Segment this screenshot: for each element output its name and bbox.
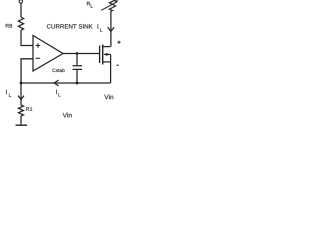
label IL left - L subscript <box>9 94 11 97</box>
MOSFET Q1 source stub <box>103 61 111 63</box>
MOSFET Q1 body arrowhead <box>104 53 108 56</box>
label Vin lower <box>63 113 72 118</box>
label IL left - I <box>5 90 8 94</box>
op-amp U1 <box>33 36 63 72</box>
wire RB to op-amp + input <box>21 30 33 45</box>
drain wire up to RL <box>110 11 112 47</box>
MOSFET Q1 channel bar <box>102 45 104 65</box>
label IL drain - I <box>97 24 100 28</box>
input terminal circle <box>19 0 23 3</box>
resistor RB <box>18 17 23 30</box>
label RB <box>6 24 13 28</box>
MOSFET Q1 body arrow <box>104 53 110 55</box>
wire node down to R1 <box>20 83 22 105</box>
label R1 <box>26 107 32 111</box>
MOSFET Q1 gate bar <box>99 46 101 64</box>
wire terminal to RB <box>20 3 22 17</box>
wire minus input to left rail down <box>21 59 33 83</box>
RL wiper arrow <box>101 2 116 10</box>
label Vin right <box>104 94 113 99</box>
label IL rail - L subscript <box>58 93 60 96</box>
op-amp output wire to MOSFET gate <box>63 53 99 55</box>
wire R1 to bottom terminal <box>20 116 22 125</box>
title CURRENT SINK <box>47 24 93 28</box>
op-amp minus input symbol <box>36 57 40 59</box>
bottom terminal bar <box>16 124 28 126</box>
minus mark VDS <box>116 64 119 66</box>
label RL - L subscript <box>91 4 93 7</box>
feedback rail wire <box>21 82 111 84</box>
label Cstab <box>52 69 64 72</box>
label IL drain - L subscript <box>100 28 102 31</box>
label IL rail - I <box>55 90 58 94</box>
op-amp plus input symbol <box>36 43 41 48</box>
resistor RL variable <box>109 0 115 11</box>
resistor R1 <box>19 105 24 116</box>
capacitor Cstab bottom stub <box>76 69 78 83</box>
MOSFET Q1 source-body vertical <box>110 54 112 62</box>
plus mark VDS <box>117 41 120 44</box>
node junction output-capacitor <box>76 52 79 55</box>
MOSFET Q1 drain stub <box>103 46 111 48</box>
node junction capacitor-rail <box>76 82 79 85</box>
label RL - R <box>87 2 90 6</box>
current arrow IL drain pointing down <box>108 27 114 31</box>
capacitor Cstab top stub <box>76 54 78 66</box>
RL wiper arrowhead <box>115 0 119 3</box>
current arrow IL on rail pointing left <box>54 80 58 86</box>
current arrow IL left pointing down <box>18 96 24 100</box>
wire source down to rail corner <box>110 62 112 83</box>
node junction left rail <box>20 82 23 85</box>
capacitor Cstab plates <box>73 66 83 70</box>
